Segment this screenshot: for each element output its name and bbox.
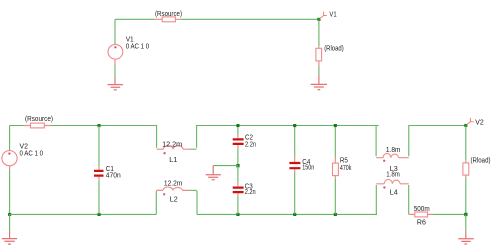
node V2 junction — [464, 124, 467, 127]
inductor L4 step wires — [376, 185, 408, 214]
svg-text:470n: 470n — [106, 172, 121, 179]
wire top rail right (Rsource to node V1) — [181, 18, 319, 20]
ground below Rload — [311, 75, 327, 90]
wire top rail: V2 corner to L1 left step — [10, 125, 157, 127]
label V2 source value — [20, 151, 44, 158]
wire node V1 down to Rload — [318, 19, 320, 46]
svg-text:1.8m: 1.8m — [386, 172, 400, 179]
inductor L1 step wires — [157, 125, 197, 148]
wire bottom-right junction to ground — [465, 214, 467, 231]
wire V1 source to ground — [114, 64, 116, 77]
junction bottom of C1 — [98, 213, 101, 216]
wire right rail lower — [465, 178, 467, 214]
svg-text:(Rload): (Rload) — [471, 157, 491, 164]
label node V2 — [475, 119, 484, 126]
label 150n — [302, 165, 314, 172]
inductor L2 — [156, 187, 197, 196]
resistor Rload (bottom circuit) — [463, 160, 469, 178]
junction bottom-left — [8, 213, 11, 216]
label V1 source value — [126, 44, 150, 51]
label 1.8m L4 — [386, 172, 400, 179]
capacitor C4 branch wires — [294, 127, 296, 214]
wire top rail left (V1 source to Rsource) — [115, 18, 155, 20]
label (Rsource) top — [155, 11, 182, 18]
wire right rail upper — [465, 126, 467, 161]
label V2 source name — [20, 144, 29, 151]
wire bottom rail: L2 right step to L4 left step — [197, 213, 377, 215]
inductor L3 step wires — [376, 125, 409, 156]
svg-text:12.2m: 12.2m — [164, 180, 183, 187]
junction bottom of C3 — [236, 213, 239, 216]
svg-text:V2: V2 — [475, 119, 484, 126]
svg-text:12.2m: 12.2m — [162, 141, 182, 148]
svg-text:L4: L4 — [390, 190, 398, 197]
label C3 — [245, 184, 253, 191]
label 470n — [106, 172, 121, 179]
capacitor C2 — [233, 135, 244, 148]
resistor Rload (top circuit) — [316, 46, 322, 66]
wire top rail: L3 right step to node V2 — [409, 125, 466, 127]
resistor R5 — [333, 157, 339, 179]
svg-text:V1: V1 — [126, 37, 134, 44]
inductor L2 step wires — [156, 191, 197, 215]
wire top rail: L1 right step to L3 left step — [197, 125, 379, 127]
label 12.2m L2 — [164, 180, 183, 187]
label 2.2n C2 — [245, 141, 256, 148]
svg-text:500m: 500m — [414, 206, 430, 213]
svg-text:0 AC 1 0: 0 AC 1 0 — [20, 151, 44, 158]
resistor R6 — [409, 212, 433, 217]
junction top of C4 — [293, 124, 296, 127]
junction bottom of C4 — [293, 213, 296, 216]
label L2 — [170, 197, 178, 204]
svg-text:(Rsource): (Rsource) — [25, 116, 53, 123]
label 2.2n C3 — [245, 189, 256, 196]
wire R6 to right rail — [433, 213, 466, 215]
wire Rload to ground — [318, 66, 320, 75]
svg-text:L1: L1 — [169, 157, 177, 164]
wire bottom-left junction to ground — [9, 214, 11, 231]
svg-text:(Rsource): (Rsource) — [155, 11, 182, 18]
junction mid C2/C3 — [236, 164, 239, 167]
label (Rload) top — [324, 46, 344, 53]
voltage source V2 — [2, 151, 17, 170]
capacitor C1 branch wires — [98, 126, 100, 215]
label 1.8m L3 — [386, 147, 401, 154]
label (Rload) bottom — [471, 157, 491, 164]
capacitor C3 branch wires — [237, 166, 239, 215]
capacitor C4 — [289, 157, 300, 173]
label L3 — [390, 166, 398, 173]
svg-text:2.2n: 2.2n — [245, 189, 256, 196]
svg-text:(Rload): (Rload) — [324, 46, 344, 53]
svg-text:2.2n: 2.2n — [245, 141, 256, 148]
inductor L3 — [376, 153, 409, 162]
wire V2 source top lead — [9, 126, 11, 151]
capacitor C1 — [94, 167, 104, 181]
resistor Rsource (bottom circuit) — [24, 123, 51, 128]
inductor L4 — [376, 179, 408, 188]
junction bottom-right — [464, 213, 467, 216]
resistor R5 branch wires — [334, 127, 336, 214]
junction top of R5 — [334, 124, 337, 127]
ground bottom-left — [2, 231, 17, 244]
label R5 — [340, 158, 348, 165]
label C4 — [302, 159, 310, 166]
ground mid — [206, 166, 221, 180]
label (Rsource) bottom — [25, 116, 53, 123]
label 470k — [340, 165, 352, 172]
node V1 junction — [317, 18, 320, 21]
voltage source V1 — [108, 44, 123, 64]
resistor Rsource (top circuit) — [155, 17, 181, 22]
label C1 — [106, 166, 114, 173]
svg-text:1.8m: 1.8m — [386, 147, 401, 154]
wire V2 source down to bottom rail — [9, 170, 11, 214]
svg-text:150n: 150n — [302, 165, 314, 172]
node V2 marker — [467, 118, 474, 125]
svg-text:0 AC 1 0: 0 AC 1 0 — [126, 44, 150, 51]
label L1 — [169, 157, 177, 164]
label node V1 — [329, 11, 336, 18]
ground bottom-right — [458, 231, 474, 244]
svg-text:V1: V1 — [329, 11, 336, 18]
wire mid junction to ground — [213, 165, 238, 167]
junction top of C2 — [236, 124, 239, 127]
junction top of C1 — [98, 124, 101, 127]
junction bottom of R5 — [334, 213, 337, 216]
label L4 — [390, 190, 398, 197]
wire V1 source top lead — [114, 19, 116, 44]
label 500m — [414, 206, 430, 213]
capacitor C3 — [233, 183, 244, 197]
wire bottom rail: left junction to L2 left step — [10, 213, 157, 215]
capacitor C2 branch wires — [237, 127, 239, 166]
inductor L1 — [157, 146, 197, 155]
svg-text:V2: V2 — [20, 144, 29, 151]
svg-text:R5: R5 — [340, 158, 348, 165]
label C2 — [245, 135, 253, 142]
svg-text:L2: L2 — [170, 197, 178, 204]
svg-text:470k: 470k — [340, 165, 352, 172]
svg-text:R6: R6 — [417, 220, 426, 227]
label V1 source name — [126, 37, 134, 44]
label R6 — [417, 220, 426, 227]
node V1 marker — [320, 12, 327, 19]
ground below V1 — [108, 77, 123, 90]
label 12.2m L1 — [162, 141, 182, 148]
